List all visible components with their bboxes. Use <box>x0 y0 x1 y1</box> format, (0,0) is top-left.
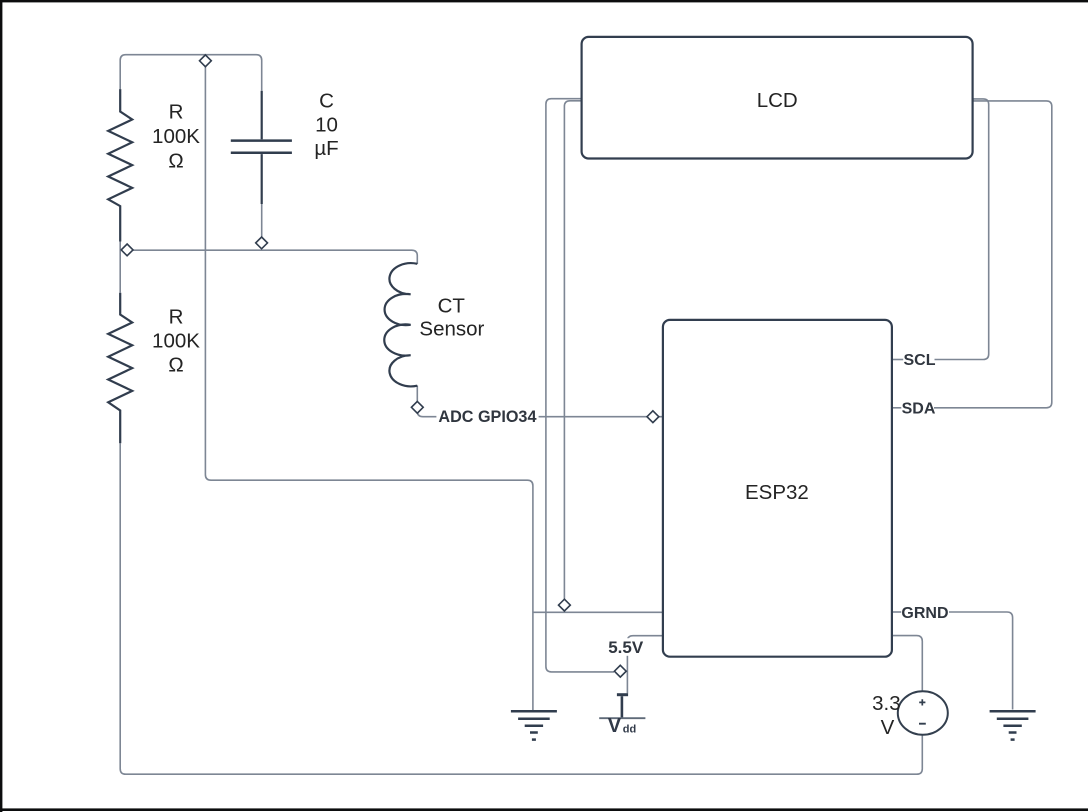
wire node B horizontal to CT sensor <box>121 250 417 264</box>
wire SCL to LCD <box>935 99 989 360</box>
svg-text:R: R <box>169 101 184 124</box>
wire GRND stub <box>892 611 901 613</box>
node A diamond <box>200 55 212 67</box>
svg-text:SCL: SCL <box>904 352 936 369</box>
wire R2 bottom down and bottom bus to battery <box>120 443 922 774</box>
pin label 5.5V <box>607 638 648 656</box>
svg-text:SDA: SDA <box>902 400 936 417</box>
svg-text:5.5V: 5.5V <box>608 638 644 657</box>
label C1 value <box>314 90 338 161</box>
wire R1 bottom to R2 top <box>119 242 121 293</box>
wire SDA stub <box>892 407 901 409</box>
svg-text:ADC GPIO34: ADC GPIO34 <box>438 408 536 426</box>
Vdd supply symbol <box>599 695 645 737</box>
svg-text:GRND: GRND <box>901 605 948 622</box>
svg-text:R: R <box>169 305 184 328</box>
ground G2 <box>990 711 1036 739</box>
label R1 value <box>152 101 200 173</box>
wire SCL stub <box>892 359 903 361</box>
wire ground tee to ESP32 left pin <box>533 611 663 613</box>
svg-text:dd: dd <box>623 724 636 736</box>
capacitor C1 <box>231 91 292 204</box>
wire coil bottom lead <box>416 386 418 402</box>
ground G1 <box>511 711 557 739</box>
svg-text:Ω: Ω <box>168 150 183 173</box>
node B diamond <box>121 244 133 256</box>
node F diamond <box>559 599 571 611</box>
wire LCD pin2 down to node F <box>564 101 581 613</box>
resistor R2 <box>108 293 132 444</box>
svg-text:100K: 100K <box>152 125 200 148</box>
svg-text:3.3: 3.3 <box>872 692 901 715</box>
node C diamond <box>256 237 268 249</box>
label CT Sensor <box>419 294 484 340</box>
node E diamond (ESP32 ADC pin) <box>647 411 659 423</box>
node G diamond (Vdd) <box>614 665 626 677</box>
svg-text:LCD: LCD <box>757 89 798 112</box>
svg-text:C: C <box>319 90 334 113</box>
svg-text:µF: µF <box>314 137 338 160</box>
wire LCD pin1 down to node G (Vdd) <box>546 99 614 672</box>
wire ADC GPIO34 <box>417 407 663 416</box>
ESP32 block U1 <box>663 320 892 657</box>
svg-text:V: V <box>881 716 895 739</box>
svg-text:Sensor: Sensor <box>419 318 484 341</box>
wire ESP32 5.5V pin down to Vdd <box>627 636 663 694</box>
wire from node A down, right, down to ground G1 <box>205 67 533 711</box>
wire GRND to ground G2 <box>949 612 1013 710</box>
svg-text:10: 10 <box>315 114 338 137</box>
wire C1 bottom lead to node C <box>261 204 263 237</box>
wire SDA to LCD <box>934 101 1052 408</box>
LCD block U2 <box>582 37 973 159</box>
svg-text:ESP32: ESP32 <box>745 481 809 504</box>
svg-text:CT: CT <box>438 294 466 317</box>
svg-text:V: V <box>608 715 622 737</box>
node D diamond (coil out) <box>411 401 423 413</box>
svg-text:Ω: Ω <box>168 353 183 376</box>
battery source B1 3.3V <box>898 691 948 735</box>
wire ESP32 to battery top <box>892 636 922 692</box>
label R2 value <box>152 305 200 376</box>
pin label ADC GPIO34 <box>436 408 538 426</box>
wire top: R1 top to C1 top <box>120 55 262 91</box>
resistor R1 <box>108 89 132 241</box>
svg-text:100K: 100K <box>152 329 200 352</box>
inductor CT sensor coil <box>384 263 417 386</box>
